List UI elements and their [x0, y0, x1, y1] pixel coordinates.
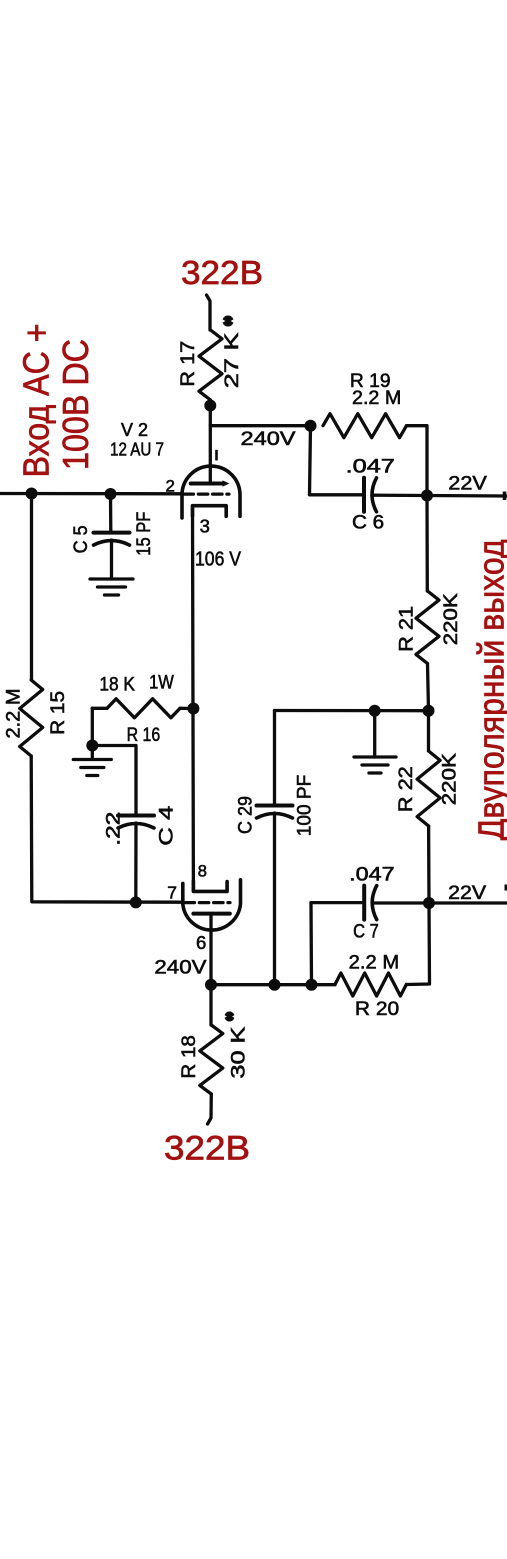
- svg-text:220K: 220K: [440, 593, 462, 645]
- capacitor C29: [257, 804, 293, 808]
- wire R15 top lead: [30, 494, 33, 681]
- svg-text:.047: .047: [346, 456, 395, 478]
- svg-text:2: 2: [166, 477, 175, 496]
- wire R16 left leg to ground node: [91, 708, 94, 745]
- capacitor C7: [362, 886, 366, 920]
- partial tick right edge top: [503, 492, 507, 501]
- svg-text:220K: 220K: [439, 753, 461, 805]
- svg-text:.22: .22: [103, 812, 125, 846]
- wire ground node to C4: [92, 746, 136, 816]
- vacuum tube V2 top half envelope: [182, 466, 240, 518]
- wire R19 right end down to 22V node: [407, 426, 428, 496]
- svg-text:R 18: R 18: [178, 1035, 200, 1078]
- wire R15 bottom to grid wire: [31, 756, 183, 902]
- svg-text:100В DC: 100В DC: [55, 339, 96, 470]
- wire pin6 to 240V node: [209, 914, 212, 985]
- resistor R17: [199, 330, 222, 400]
- partial char right edge bottom: [505, 885, 507, 891]
- svg-text:2.2 M: 2.2 M: [349, 951, 400, 973]
- wire C6 to 22V node: [373, 494, 428, 498]
- svg-text:2.2 M: 2.2 M: [352, 387, 401, 409]
- svg-text:12 AU 7: 12 AU 7: [110, 439, 164, 459]
- svg-text:7: 7: [167, 883, 177, 903]
- junction dot C29 bottom junction: [269, 979, 281, 991]
- wire R18 bottom lead to 322B: [208, 1094, 212, 1124]
- asterisk marker at R17: [223, 316, 233, 327]
- resistor R18: [209, 985, 212, 1025]
- svg-text:Двуполярный выход: Двуполярный выход: [471, 539, 507, 840]
- svg-text:1W: 1W: [149, 672, 174, 694]
- junction dot input/R15 junction: [26, 488, 38, 500]
- svg-text:240V: 240V: [154, 957, 206, 979]
- capacitor C29 bottom lead: [273, 813, 276, 985]
- wire ground stub mid: [373, 711, 376, 757]
- wire mid row C29 corner to R21/R22 junction: [275, 709, 429, 713]
- svg-text:15 PF: 15 PF: [133, 512, 155, 556]
- svg-text:8: 8: [198, 862, 207, 880]
- wire C7 left stub down: [309, 903, 313, 985]
- node 322B supply top lead: [207, 295, 211, 330]
- V2 top cathode: [193, 506, 227, 517]
- wire 240V node to R19: [210, 424, 310, 427]
- svg-text:322B: 322B: [181, 254, 263, 291]
- V2 bottom cathode: [193, 881, 227, 891]
- cathode interconnect wire (pin3 to pin8): [191, 506, 195, 892]
- wire C6 row left: [310, 493, 365, 496]
- svg-text:22V: 22V: [448, 473, 487, 495]
- V2 top plate (anode) with arrow: [191, 482, 224, 486]
- junction dot mid ground tap: [369, 705, 381, 717]
- wire 22V output top: [427, 494, 507, 498]
- svg-text:V 2: V 2: [121, 420, 148, 440]
- junction dot R19 left junction: [305, 420, 317, 432]
- wire R20 right end up to 22V node: [406, 903, 429, 985]
- wire R21 to junction: [428, 664, 429, 711]
- svg-text:106 V: 106 V: [195, 549, 242, 571]
- capacitor C5 bottom lead: [110, 540, 113, 579]
- V2 top grid (dashed): [184, 493, 229, 496]
- resistor R16: [92, 707, 107, 710]
- ground under C5: [90, 577, 133, 580]
- svg-text:100 PF: 100 PF: [294, 775, 316, 837]
- svg-text:R 17: R 17: [177, 341, 199, 387]
- svg-text:.047: .047: [349, 863, 394, 885]
- wire C6 left drop: [310, 426, 311, 495]
- capacitor C5 top lead: [109, 494, 113, 533]
- wire C7 row: [311, 901, 364, 904]
- junction dot 22V top node: [421, 490, 433, 502]
- svg-text:3: 3: [200, 515, 210, 536]
- junction dot C7 stub junction: [306, 979, 318, 991]
- svg-text:Вход AC +: Вход AC +: [16, 324, 57, 478]
- capacitor C4: [118, 814, 154, 818]
- svg-text:C 6: C 6: [352, 511, 384, 533]
- wire input line: [0, 492, 183, 496]
- junction dot R17 junction: [204, 400, 216, 412]
- ground under R16 node: [91, 746, 94, 759]
- junction dot C4 grid junction: [130, 896, 142, 908]
- svg-text:240V: 240V: [241, 428, 296, 450]
- ground mid: [354, 755, 396, 758]
- capacitor C5: [94, 531, 130, 535]
- wire 22V node down to R21: [425, 496, 429, 592]
- wire R17 junction down to plate pin 1: [209, 406, 212, 484]
- resistor R22: [427, 711, 430, 751]
- svg-text:22V: 22V: [448, 882, 486, 904]
- capacitor C4 bottom lead: [134, 823, 137, 902]
- junction dot R16 ground node: [86, 740, 98, 752]
- svg-text:R 22: R 22: [395, 766, 417, 812]
- resistor R20: [335, 973, 406, 996]
- svg-text:C 4: C 4: [156, 806, 178, 846]
- junction dot R21/R22 junction: [423, 705, 435, 717]
- svg-text:6: 6: [196, 932, 206, 953]
- svg-text:2.2 M: 2.2 M: [3, 689, 25, 739]
- junction dot R16/cathode junction: [187, 703, 199, 715]
- junction dot 22V bottom node: [423, 897, 435, 909]
- svg-text:18 K: 18 K: [99, 674, 134, 696]
- svg-text:27 K: 27 K: [221, 332, 243, 388]
- svg-text:C 29: C 29: [235, 796, 257, 834]
- pin 1 label: [215, 450, 218, 461]
- capacitor C6: [362, 478, 366, 512]
- svg-text:30 K: 30 K: [227, 1027, 249, 1079]
- V2 bottom plate (anode): [193, 912, 229, 916]
- capacitor C29 top lead: [273, 711, 276, 806]
- V2 bottom grid (dashed): [185, 901, 230, 904]
- resistor R15: [20, 680, 43, 756]
- resistor R19: [323, 414, 407, 438]
- svg-text:C 7: C 7: [353, 921, 379, 943]
- svg-text:322B: 322B: [164, 1130, 250, 1168]
- svg-text:R 15: R 15: [47, 691, 69, 735]
- junction dot C5 tap junction: [105, 488, 117, 500]
- svg-text:C 5: C 5: [70, 525, 92, 553]
- asterisk marker at R18: [225, 1012, 234, 1022]
- svg-text:R 20: R 20: [355, 998, 399, 1020]
- vacuum tube V2 bottom half envelope: [183, 880, 241, 930]
- svg-text:R 16: R 16: [127, 724, 161, 746]
- resistor R21: [416, 591, 439, 664]
- 240V bottom node wire / row: [211, 983, 335, 986]
- wire 22V output bottom: [429, 901, 507, 904]
- junction dot 240V bottom node: [205, 979, 217, 991]
- svg-text:R 21: R 21: [396, 606, 418, 652]
